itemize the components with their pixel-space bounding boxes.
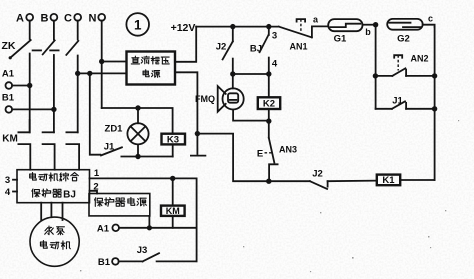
wire phase A drop	[29, 21, 31, 39]
contactor KM pole C contact	[66, 132, 79, 169]
svg-text:J2: J2	[216, 42, 227, 53]
node protector-A1 junction	[147, 225, 152, 230]
svg-text:B1: B1	[98, 257, 111, 268]
svg-text:1: 1	[134, 17, 142, 32]
svg-text:A1: A1	[97, 224, 110, 235]
svg-text:3: 3	[5, 175, 10, 186]
wire B1 to phase B	[12, 108, 54, 110]
svg-text:KM: KM	[2, 134, 18, 145]
svg-text:AN2: AN2	[410, 54, 428, 64]
DC supply box 直流稳压电源	[127, 52, 176, 85]
node N tap	[99, 59, 104, 64]
terminal A1 upper	[2, 69, 15, 89]
node J1 right junction	[432, 106, 437, 111]
relay coil K1	[377, 175, 435, 187]
tube G1	[328, 19, 362, 44]
wire node b drop	[375, 25, 377, 109]
svg-text:AN1: AN1	[289, 42, 307, 52]
wire A1 to phase A	[12, 85, 30, 87]
terminal B1 lower	[98, 257, 119, 268]
wire +12V rail	[196, 26, 279, 28]
svg-text:BJ: BJ	[63, 190, 76, 201]
svg-text:K2: K2	[263, 99, 275, 110]
wire motor lead 3	[62, 203, 64, 220]
node b	[365, 22, 378, 37]
buzzer FMQ	[195, 74, 269, 121]
svg-text:G1: G1	[334, 34, 347, 45]
wire protector power to A1 line	[148, 216, 150, 228]
svg-text:c: c	[428, 14, 433, 24]
ground	[191, 134, 206, 156]
node FMQ top junction	[230, 71, 235, 76]
node AN3 bottom junction	[266, 179, 271, 184]
wire DC box negative output	[175, 72, 197, 133]
contactor KM pole A contact	[18, 120, 30, 170]
node K2 top junction	[266, 71, 271, 76]
sheet marker circle 1	[126, 13, 149, 36]
lamp ZD1	[105, 108, 149, 157]
tube G2	[387, 19, 423, 45]
wire DC negative to AN3 node	[197, 134, 268, 182]
terminal A	[16, 13, 33, 25]
node C tap	[75, 71, 80, 76]
terminal A1 lower	[97, 224, 119, 235]
wire G1 to node b	[363, 24, 376, 26]
node J1 branch tap	[87, 71, 92, 76]
svg-text:1: 1	[94, 168, 100, 179]
svg-text:J2: J2	[312, 169, 323, 180]
wire C to DC box	[78, 72, 127, 74]
wire A1 line	[119, 227, 197, 229]
svg-text:ZK: ZK	[2, 40, 16, 52]
pushbutton AN3 (E)	[257, 121, 297, 181]
wire G2 to node c	[423, 25, 435, 27]
contact J1 left	[101, 142, 122, 156]
wire J2-BJ link	[233, 73, 269, 75]
svg-text:KM: KM	[166, 206, 180, 216]
terminal B	[41, 13, 58, 25]
pushbutton AN2	[375, 54, 434, 76]
wire phase B drop	[53, 21, 55, 40]
terminal 3 stub	[5, 175, 17, 186]
terminal C	[64, 13, 81, 25]
svg-text:J3: J3	[137, 245, 148, 256]
svg-text:B1: B1	[2, 93, 15, 104]
contact J3	[119, 245, 197, 261]
svg-text:N: N	[89, 13, 97, 25]
svg-text:B: B	[41, 13, 49, 25]
node AN2 left junction	[373, 73, 378, 78]
wire J1 branch drop	[90, 73, 101, 154]
node ZD1 bottom junction	[135, 154, 140, 159]
contact J1 right	[376, 96, 435, 109]
relay coil K3	[162, 134, 186, 157]
switch ZK linkage dashed	[33, 49, 59, 51]
node BJ rail tap	[266, 24, 271, 29]
terminal 1 wire	[90, 168, 197, 261]
node K2 bottom junction	[266, 118, 271, 123]
wire phase B to KM	[53, 55, 55, 132]
node A1-A junction	[27, 83, 32, 88]
svg-text:K1: K1	[382, 175, 395, 186]
switch ZK pole C blade	[66, 41, 78, 55]
wire right rail	[434, 27, 436, 180]
svg-text:A: A	[16, 13, 24, 25]
terminal 2 wire	[90, 182, 99, 194]
terminal N	[89, 13, 106, 25]
svg-text:4: 4	[272, 59, 278, 70]
svg-text:A1: A1	[2, 69, 15, 80]
contactor KM pole B contact	[43, 132, 55, 169]
svg-text:G2: G2	[397, 34, 410, 45]
relay coil K2	[258, 74, 280, 121]
svg-text:E: E	[257, 149, 263, 160]
svg-text:+12V: +12V	[171, 22, 196, 34]
protector power box 保护器电源	[89, 194, 150, 216]
wire phase C drop	[77, 21, 79, 40]
wire neutral N drop	[101, 21, 103, 108]
motor 水泵电动机	[30, 217, 79, 266]
switch ZK pole B blade	[43, 40, 55, 54]
wire N to DC box	[102, 61, 127, 63]
node J2 rail tap	[230, 24, 235, 29]
node AN2 right junction	[432, 73, 437, 78]
node ZD1 top junction	[135, 105, 140, 110]
terminal 4 stub	[5, 187, 17, 198]
svg-text:FMQ: FMQ	[195, 94, 215, 104]
svg-text:AN3: AN3	[279, 145, 297, 155]
switch ZK pole A blade	[9, 40, 31, 59]
svg-text:C: C	[64, 13, 72, 25]
wire motor lead 2	[50, 203, 52, 218]
svg-text:3: 3	[272, 31, 277, 42]
wire lamp bottom rail	[121, 156, 172, 158]
wire phase C to KM	[77, 56, 79, 133]
relay coil KM	[161, 178, 185, 227]
pushbutton AN1	[279, 19, 329, 51]
terminal B1 upper	[2, 93, 15, 113]
svg-text:b: b	[365, 27, 371, 37]
protector box 电动机综合保护器BJ	[17, 170, 90, 203]
svg-text:ZD1: ZD1	[105, 124, 124, 135]
svg-text:4: 4	[5, 187, 11, 198]
node B1-B junction	[51, 107, 56, 112]
wire motor lead 1	[40, 203, 42, 220]
contact BJ with terminals 3 and 4	[250, 27, 278, 74]
contact J2 lower	[269, 169, 377, 189]
contact J2 upper	[216, 27, 233, 74]
wire phase A to KM	[29, 54, 31, 133]
node KM coil top junction	[170, 176, 175, 181]
scan specks	[80, 120, 459, 272]
wire DC box +12V output	[175, 27, 196, 62]
node DC negative junction	[195, 131, 200, 136]
wire N elbow to lamp rail	[102, 108, 173, 134]
